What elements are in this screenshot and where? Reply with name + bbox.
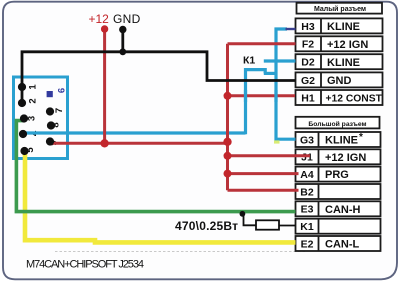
wire red +12 drop (103, 29, 106, 143)
big connector row G3 KLINE* (296, 132, 381, 147)
wire red main vertical (226, 44, 229, 191)
wire red H1 stub (228, 94, 296, 97)
wire navy tail to H3 (286, 28, 296, 30)
svg-text:KLINE: KLINE (325, 135, 358, 147)
big connector row B2 (296, 184, 381, 199)
svg-text:M74CAN+CHIPSOFT J2534: M74CAN+CHIPSOFT J2534 (26, 258, 144, 270)
big connector header (296, 117, 380, 129)
node GND (119, 26, 126, 33)
pin 2 (18, 99, 26, 107)
svg-text:6: 6 (57, 88, 68, 93)
svg-text:+12 IGN: +12 IGN (327, 39, 368, 51)
svg-text:PRG: PRG (325, 169, 349, 181)
small connector header (297, 3, 383, 14)
svg-text:A4: A4 (300, 169, 314, 181)
svg-text:F2: F2 (302, 39, 314, 51)
junction main red / feed (223, 138, 231, 146)
svg-text:E2: E2 (301, 238, 314, 250)
wire red pin9 feed (51, 142, 228, 145)
svg-text:GND: GND (327, 75, 352, 87)
big connector row E2 CAN-L (296, 236, 381, 251)
svg-text:К1: К1 (243, 55, 255, 67)
wire blue crossing overlays (246, 90, 277, 102)
wire red B2 stub (228, 189, 299, 192)
wire red F2 stub (228, 42, 296, 45)
wire blue main vertical H3-G3 (276, 29, 296, 139)
pin 7 (46, 107, 54, 115)
big connector row E3 CAN-H (296, 201, 381, 216)
connector J2534 box (14, 77, 68, 159)
pin 9 (46, 137, 54, 145)
svg-text:+12: +12 (89, 12, 110, 26)
pin 5 (20, 147, 28, 155)
svg-text:Малый разъем: Малый разъем (314, 5, 366, 13)
svg-text:J1: J1 (301, 152, 313, 164)
wire black resistor right lead (279, 225, 296, 227)
svg-text:G3: G3 (300, 134, 314, 146)
svg-text:3: 3 (27, 116, 38, 121)
pin 1 (18, 83, 26, 91)
big connector row K1 (296, 219, 381, 234)
svg-text:470\0.25Вт: 470\0.25Вт (175, 219, 238, 233)
wire black pin1-pin2 link (21, 87, 24, 103)
small connector row F2 +12IGN (296, 36, 383, 51)
junction J1 branch (224, 152, 232, 160)
svg-text:7: 7 (54, 108, 65, 113)
svg-text:+12 IGN: +12 IGN (325, 152, 366, 164)
svg-text:Большой разъем: Большой разъем (308, 120, 366, 128)
svg-text:H1: H1 (301, 92, 315, 104)
svg-text:KLINE: KLINE (327, 21, 360, 33)
wire blue D2 stub (264, 59, 296, 62)
resistor R1 470\0.25W (256, 220, 279, 229)
pin 3 (20, 114, 28, 122)
wire red A4 stub (228, 172, 299, 175)
small connector row G2 GND (296, 72, 383, 87)
small connector row H1 +12CONST (296, 90, 383, 105)
junction dot on green (240, 211, 246, 217)
svg-text:2: 2 (28, 98, 39, 103)
svg-text:E3: E3 (301, 204, 314, 216)
svg-text:D2: D2 (301, 57, 315, 69)
big connector row A4 PRG (296, 167, 381, 182)
svg-text:CAN-H: CAN-H (325, 204, 360, 216)
svg-text:*: * (359, 132, 363, 143)
junction GND to bus (119, 48, 126, 55)
pin 4 (19, 130, 27, 138)
svg-text:H3: H3 (301, 21, 315, 33)
svg-text:K1: K1 (300, 221, 314, 233)
junction A4 branch (224, 170, 232, 178)
faint divider line (55, 251, 306, 253)
big connector row J1 +12IGN (296, 149, 381, 164)
wire blue pin4 to relay (24, 131, 246, 134)
pin 6 navy square (47, 91, 53, 97)
junction H1 branch (224, 92, 232, 100)
node artifact at G3 corner (274, 140, 280, 143)
wire black GND drop (121, 30, 124, 52)
wire blue left vertical of K1 (246, 70, 266, 135)
wire black resistor left lead (244, 213, 257, 225)
svg-text:CAN-L: CAN-L (325, 239, 359, 251)
wire black pin1 to G2 (22, 52, 296, 87)
small connector row H3 KLINE (296, 18, 383, 33)
svg-text:KLINE: KLINE (327, 57, 360, 69)
wire yellow pin5 to E2 (25, 152, 296, 242)
wire red J1 stub (228, 154, 311, 157)
node +12 (101, 25, 108, 32)
svg-text:+12 CONST: +12 CONST (326, 93, 383, 104)
wire blue jog to main vertical (264, 72, 276, 75)
junction +12 to pin9 line (100, 139, 108, 147)
pin 8 (47, 121, 55, 129)
svg-text:B2: B2 (300, 186, 314, 198)
svg-text:GND: GND (113, 12, 141, 26)
svg-text:G2: G2 (301, 75, 315, 87)
svg-text:1: 1 (28, 84, 39, 90)
small connector row D2 KLINE (296, 54, 383, 69)
wire green pin3 to E3 (16, 121, 295, 212)
